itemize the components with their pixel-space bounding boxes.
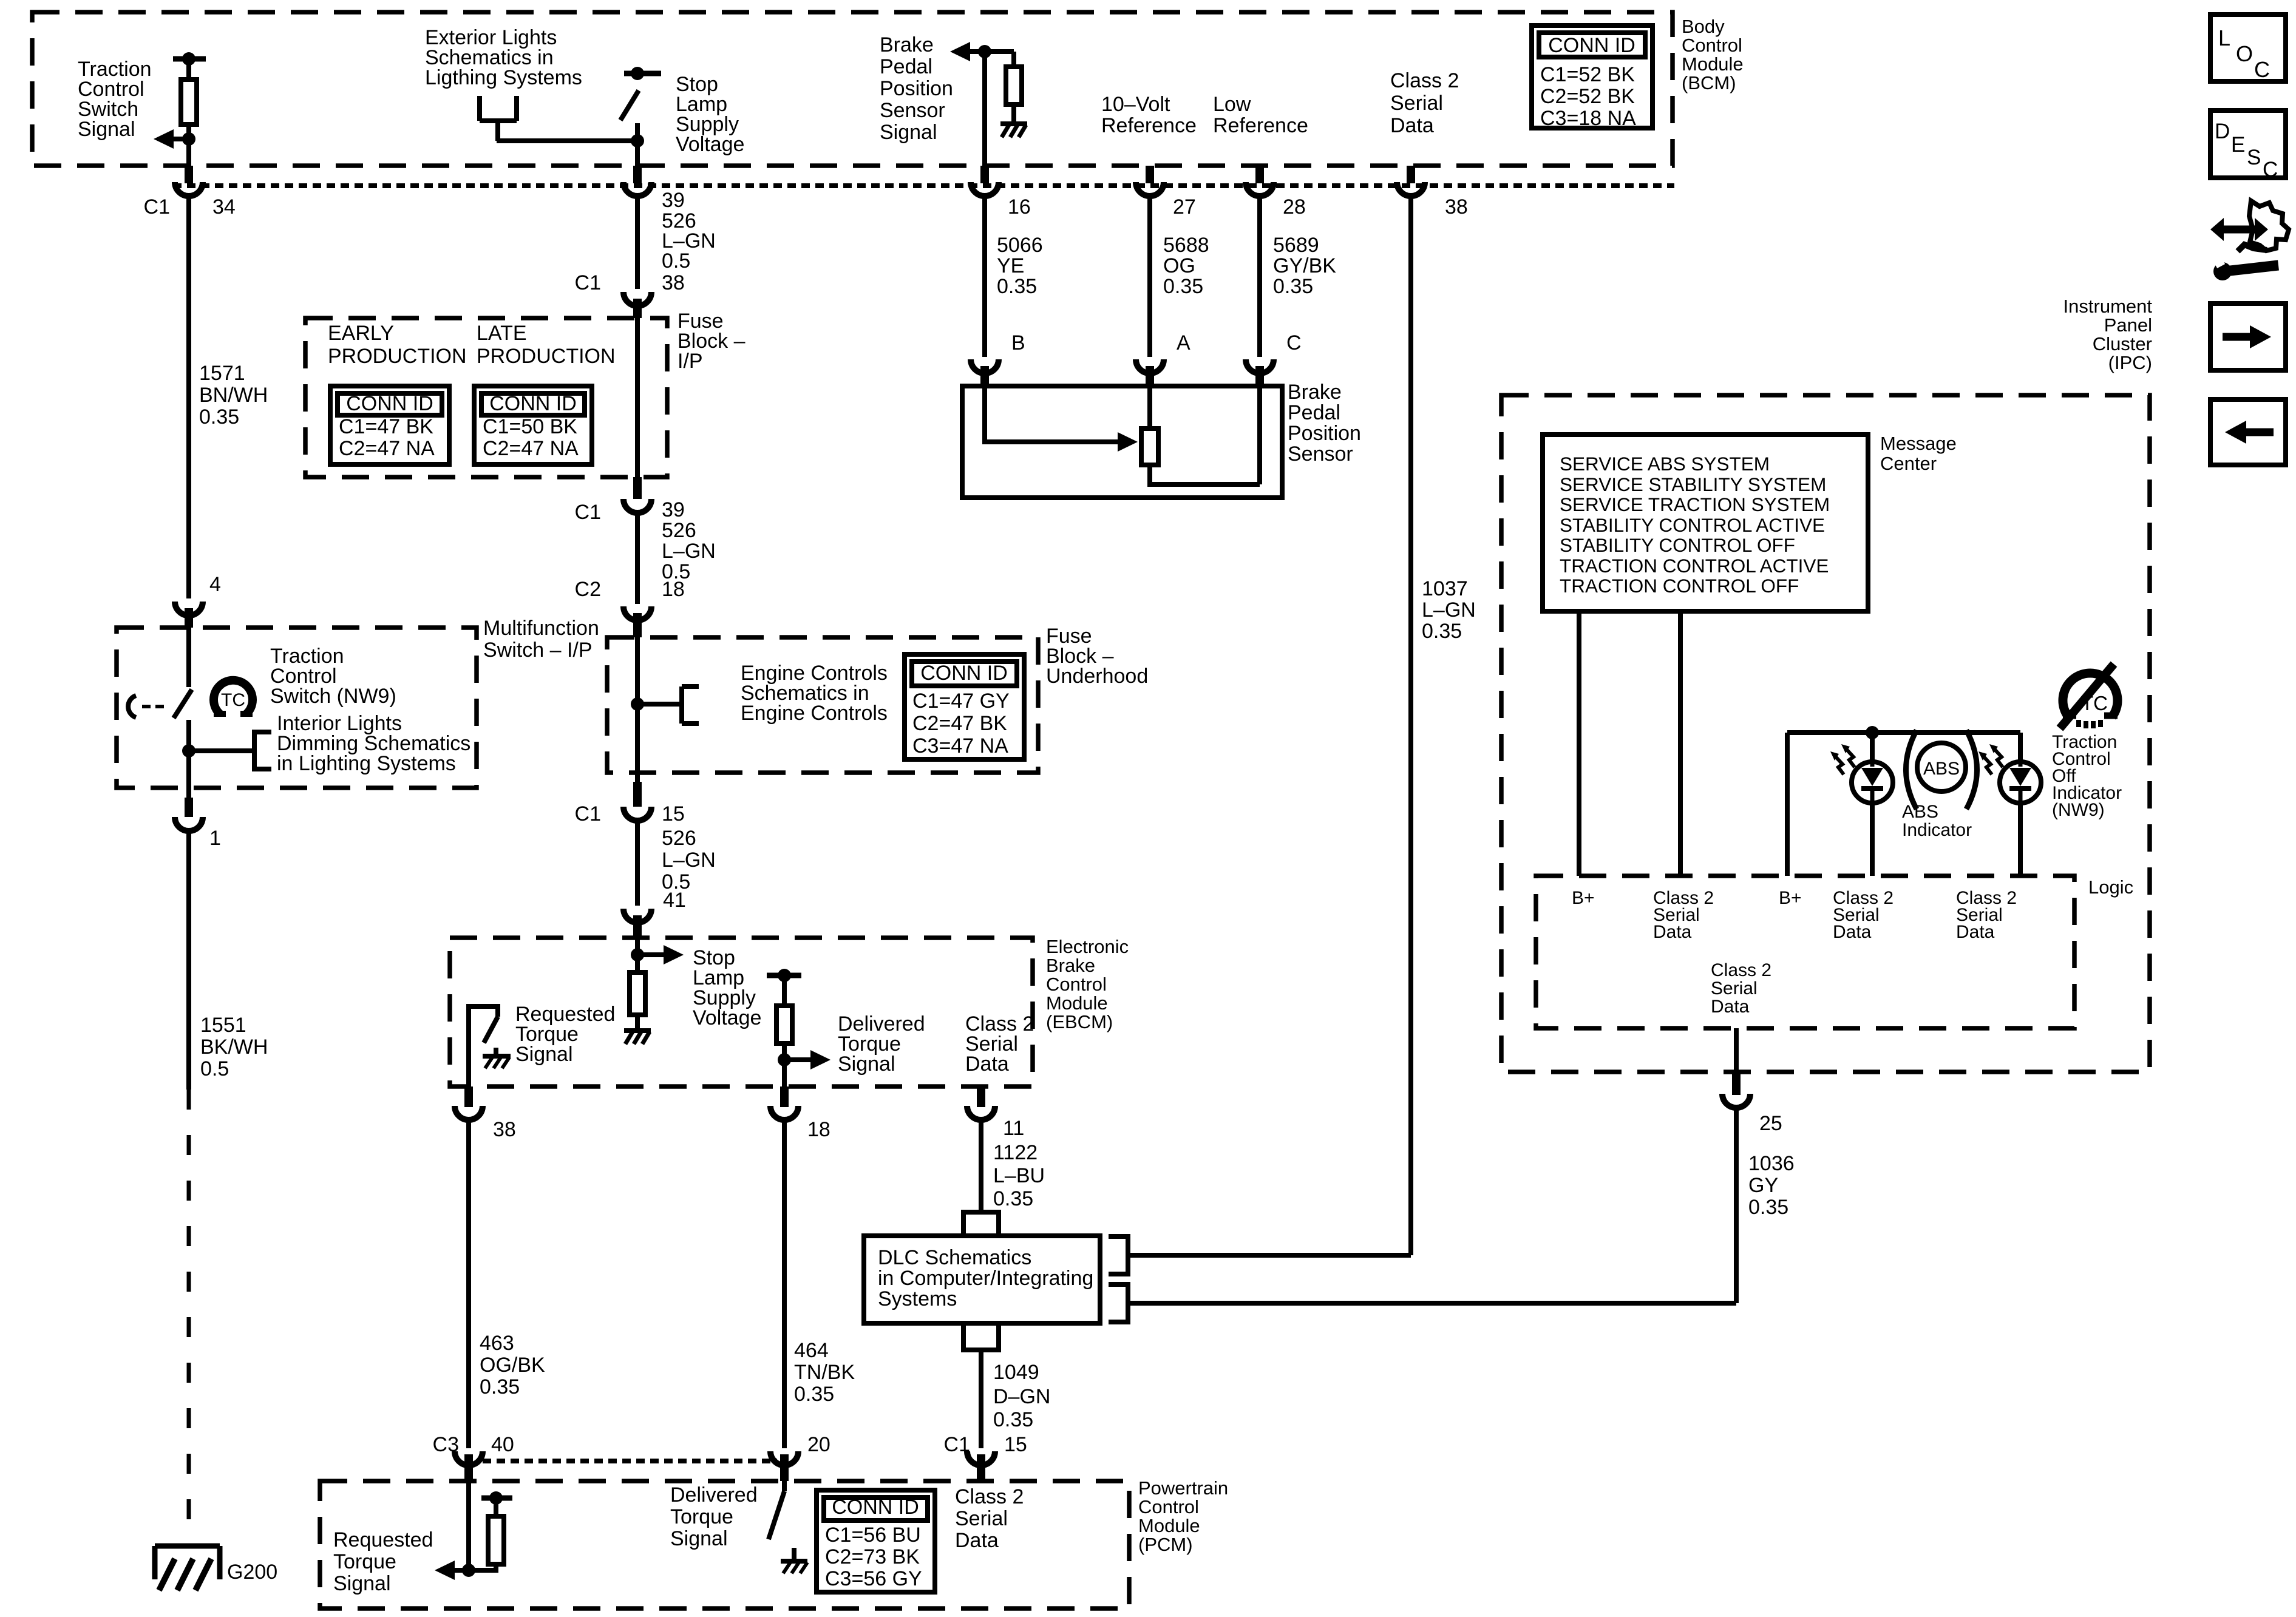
svg-text:Panel: Panel xyxy=(2104,314,2152,336)
svg-text:D–GN: D–GN xyxy=(993,1385,1050,1408)
svg-text:C: C xyxy=(2263,158,2278,181)
svg-text:Underhood: Underhood xyxy=(1046,665,1148,688)
svg-text:Control: Control xyxy=(1682,35,1742,56)
svg-text:TC: TC xyxy=(221,690,245,710)
svg-text:L–BU: L–BU xyxy=(993,1164,1045,1187)
svg-text:0.5: 0.5 xyxy=(200,1057,229,1080)
svg-text:Brake: Brake xyxy=(1046,955,1095,976)
svg-text:5688: 5688 xyxy=(1163,234,1209,257)
svg-text:CONN ID: CONN ID xyxy=(489,392,577,415)
svg-text:A: A xyxy=(1177,331,1190,354)
svg-text:TRACTION CONTROL ACTIVE: TRACTION CONTROL ACTIVE xyxy=(1560,555,1829,577)
svg-text:526: 526 xyxy=(662,519,696,542)
svg-text:0.35: 0.35 xyxy=(480,1375,520,1398)
svg-text:C: C xyxy=(1286,331,1302,354)
svg-text:B: B xyxy=(1011,331,1025,354)
svg-text:Delivered: Delivered xyxy=(670,1483,758,1507)
svg-text:Ligthing Systems: Ligthing Systems xyxy=(425,66,582,89)
svg-text:0.35: 0.35 xyxy=(997,275,1037,298)
svg-text:Requested: Requested xyxy=(333,1528,433,1551)
svg-text:Data: Data xyxy=(1956,922,1995,942)
svg-text:C1: C1 xyxy=(575,501,601,524)
svg-text:Data: Data xyxy=(965,1053,1009,1076)
svg-text:OG: OG xyxy=(1163,254,1195,277)
svg-text:G200: G200 xyxy=(227,1561,277,1584)
svg-text:464: 464 xyxy=(794,1339,829,1362)
svg-text:C1: C1 xyxy=(144,195,170,219)
svg-text:OG/BK: OG/BK xyxy=(480,1354,545,1377)
svg-text:18: 18 xyxy=(807,1118,830,1141)
svg-text:S: S xyxy=(2247,146,2261,169)
svg-text:Electronic: Electronic xyxy=(1046,936,1129,957)
svg-text:Sensor: Sensor xyxy=(880,99,945,122)
svg-text:Switch (NW9): Switch (NW9) xyxy=(270,685,396,708)
svg-text:Low: Low xyxy=(1213,93,1251,116)
svg-text:EARLY: EARLY xyxy=(328,322,394,345)
svg-text:1551: 1551 xyxy=(200,1014,246,1037)
svg-text:38: 38 xyxy=(1445,195,1468,219)
svg-text:Signal: Signal xyxy=(515,1043,573,1066)
svg-text:0.35: 0.35 xyxy=(993,1187,1033,1210)
svg-text:Engine Controls: Engine Controls xyxy=(741,702,888,725)
svg-text:DLC Schematics: DLC Schematics xyxy=(878,1246,1031,1269)
svg-text:Cluster: Cluster xyxy=(2093,333,2152,354)
svg-text:Signal: Signal xyxy=(838,1053,895,1076)
svg-text:Data: Data xyxy=(1653,922,1692,942)
svg-text:Instrument: Instrument xyxy=(2063,296,2153,317)
svg-text:C1=50 BK: C1=50 BK xyxy=(483,415,577,438)
svg-text:CONN ID: CONN ID xyxy=(346,392,433,415)
svg-text:C1=52 BK: C1=52 BK xyxy=(1540,63,1635,86)
svg-text:5689: 5689 xyxy=(1273,234,1319,257)
svg-text:Control: Control xyxy=(1046,974,1107,995)
svg-text:18: 18 xyxy=(662,578,685,601)
svg-text:1: 1 xyxy=(209,827,221,850)
svg-text:TRACTION CONTROL OFF: TRACTION CONTROL OFF xyxy=(1560,575,1799,597)
svg-text:1049: 1049 xyxy=(993,1361,1039,1384)
svg-text:Control: Control xyxy=(1138,1496,1199,1517)
svg-text:C1=47 BK: C1=47 BK xyxy=(339,415,433,438)
svg-text:C2=52 BK: C2=52 BK xyxy=(1540,85,1635,108)
svg-text:LATE: LATE xyxy=(477,322,527,345)
svg-text:C2=73 BK: C2=73 BK xyxy=(825,1545,920,1568)
svg-text:Module: Module xyxy=(1138,1515,1200,1536)
svg-text:Class 2: Class 2 xyxy=(955,1485,1024,1508)
svg-text:Message: Message xyxy=(1880,433,1957,454)
svg-text:Data: Data xyxy=(955,1529,999,1552)
svg-text:STABILITY CONTROL OFF: STABILITY CONTROL OFF xyxy=(1560,534,1795,556)
svg-text:Body: Body xyxy=(1682,16,1725,37)
svg-text:C2=47 NA: C2=47 NA xyxy=(483,437,579,460)
svg-text:38: 38 xyxy=(662,271,685,294)
svg-text:C1: C1 xyxy=(575,802,601,825)
svg-text:1122: 1122 xyxy=(993,1141,1038,1164)
svg-text:C3=47 NA: C3=47 NA xyxy=(912,734,1008,758)
svg-text:Serial: Serial xyxy=(1390,92,1443,115)
svg-text:Reference: Reference xyxy=(1101,114,1197,137)
svg-text:L: L xyxy=(2218,25,2230,50)
svg-text:Torque: Torque xyxy=(333,1550,396,1573)
svg-text:PRODUCTION: PRODUCTION xyxy=(328,345,467,368)
svg-text:Brake: Brake xyxy=(880,33,934,56)
svg-text:BN/WH: BN/WH xyxy=(199,384,268,407)
svg-text:11: 11 xyxy=(1003,1117,1024,1140)
svg-text:(PCM): (PCM) xyxy=(1138,1534,1193,1555)
svg-text:10–Volt: 10–Volt xyxy=(1101,93,1170,116)
svg-text:526: 526 xyxy=(662,827,696,850)
svg-text:L–GN: L–GN xyxy=(662,849,716,872)
svg-text:Pedal: Pedal xyxy=(880,55,932,78)
svg-text:C1: C1 xyxy=(575,271,601,294)
svg-text:C3=56 GY: C3=56 GY xyxy=(825,1567,922,1590)
svg-text:0.5: 0.5 xyxy=(662,249,690,273)
svg-text:Powertrain: Powertrain xyxy=(1138,1477,1228,1499)
svg-text:B+: B+ xyxy=(1572,888,1595,908)
svg-text:Data: Data xyxy=(1833,922,1872,942)
svg-text:41: 41 xyxy=(663,889,686,912)
svg-text:CONN ID: CONN ID xyxy=(920,662,1008,685)
svg-text:Voltage: Voltage xyxy=(693,1006,761,1029)
svg-text:C2=47 NA: C2=47 NA xyxy=(339,437,435,460)
svg-text:GY/BK: GY/BK xyxy=(1273,254,1336,277)
svg-text:Serial: Serial xyxy=(955,1507,1008,1530)
svg-text:PRODUCTION: PRODUCTION xyxy=(477,345,616,368)
svg-text:CONN ID: CONN ID xyxy=(1548,34,1635,57)
svg-text:16: 16 xyxy=(1008,195,1031,219)
svg-text:Class 2: Class 2 xyxy=(1390,69,1459,92)
svg-text:Class 2: Class 2 xyxy=(1711,960,1771,980)
svg-text:39: 39 xyxy=(662,498,685,521)
svg-text:Signal: Signal xyxy=(333,1572,391,1595)
svg-text:0.35: 0.35 xyxy=(1422,620,1462,643)
svg-text:Module: Module xyxy=(1682,53,1744,75)
svg-text:Signal: Signal xyxy=(880,121,937,144)
svg-text:D: D xyxy=(2215,120,2230,143)
svg-text:Data: Data xyxy=(1711,997,1750,1017)
svg-text:15: 15 xyxy=(1004,1433,1027,1456)
svg-text:0.35: 0.35 xyxy=(199,405,239,429)
svg-text:C2=47 BK: C2=47 BK xyxy=(912,712,1007,735)
svg-text:Sensor: Sensor xyxy=(1288,442,1353,466)
svg-text:O: O xyxy=(2236,41,2253,66)
svg-text:0.35: 0.35 xyxy=(794,1383,834,1406)
svg-text:Serial: Serial xyxy=(1711,978,1758,998)
svg-text:SERVICE TRACTION SYSTEM: SERVICE TRACTION SYSTEM xyxy=(1560,493,1830,515)
svg-text:TN/BK: TN/BK xyxy=(794,1361,855,1384)
svg-text:Signal: Signal xyxy=(670,1527,728,1550)
svg-text:1037: 1037 xyxy=(1422,577,1468,600)
svg-text:SERVICE STABILITY SYSTEM: SERVICE STABILITY SYSTEM xyxy=(1560,473,1826,495)
svg-text:20: 20 xyxy=(807,1433,830,1456)
svg-text:Torque: Torque xyxy=(670,1505,733,1528)
svg-text:Position: Position xyxy=(1288,422,1361,445)
svg-text:SERVICE ABS SYSTEM: SERVICE ABS SYSTEM xyxy=(1560,453,1770,475)
svg-text:5066: 5066 xyxy=(997,234,1043,257)
svg-text:ABS: ABS xyxy=(1923,759,1960,779)
svg-text:C3=18 NA: C3=18 NA xyxy=(1540,107,1636,130)
svg-text:463: 463 xyxy=(480,1332,514,1355)
svg-text:39: 39 xyxy=(662,189,685,212)
svg-text:STABILITY CONTROL ACTIVE: STABILITY CONTROL ACTIVE xyxy=(1560,514,1825,536)
svg-text:Switch – I/P: Switch – I/P xyxy=(483,639,593,662)
svg-text:Reference: Reference xyxy=(1213,114,1308,137)
svg-text:Position: Position xyxy=(880,77,953,100)
svg-text:C: C xyxy=(2254,57,2270,82)
svg-text:0.35: 0.35 xyxy=(993,1408,1033,1431)
svg-text:L–GN: L–GN xyxy=(662,540,716,563)
svg-text:Brake: Brake xyxy=(1288,381,1342,404)
svg-text:0.35: 0.35 xyxy=(1748,1196,1788,1219)
svg-text:(IPC): (IPC) xyxy=(2108,352,2152,373)
svg-text:BK/WH: BK/WH xyxy=(200,1036,268,1059)
svg-text:Pedal: Pedal xyxy=(1288,401,1340,424)
svg-text:27: 27 xyxy=(1173,195,1196,219)
svg-text:I/P: I/P xyxy=(678,350,703,373)
svg-text:25: 25 xyxy=(1759,1112,1782,1135)
svg-text:0.35: 0.35 xyxy=(1273,275,1313,298)
svg-text:YE: YE xyxy=(997,254,1024,277)
svg-text:ABS: ABS xyxy=(1902,802,1938,822)
svg-text:38: 38 xyxy=(493,1118,516,1141)
svg-text:B+: B+ xyxy=(1779,888,1802,908)
svg-text:Voltage: Voltage xyxy=(676,133,744,156)
svg-text:C1=56 BU: C1=56 BU xyxy=(825,1524,921,1547)
svg-text:28: 28 xyxy=(1283,195,1306,219)
svg-text:Signal: Signal xyxy=(78,118,135,141)
svg-text:Indicator: Indicator xyxy=(1902,820,1972,840)
svg-text:C2: C2 xyxy=(575,578,601,601)
svg-text:C1=47 GY: C1=47 GY xyxy=(912,690,1010,713)
svg-text:L–GN: L–GN xyxy=(1422,598,1476,622)
svg-text:in Lighting Systems: in Lighting Systems xyxy=(277,752,456,775)
svg-text:1571: 1571 xyxy=(199,362,245,385)
svg-text:Logic: Logic xyxy=(2088,876,2133,898)
svg-text:GY: GY xyxy=(1748,1174,1778,1197)
svg-text:Center: Center xyxy=(1880,453,1937,474)
svg-text:0.35: 0.35 xyxy=(1163,275,1203,298)
svg-text:4: 4 xyxy=(209,573,221,596)
svg-text:34: 34 xyxy=(212,195,236,219)
svg-text:CONN ID: CONN ID xyxy=(832,1496,919,1519)
svg-text:Module: Module xyxy=(1046,992,1108,1014)
svg-text:15: 15 xyxy=(662,802,685,825)
svg-text:(EBCM): (EBCM) xyxy=(1046,1011,1113,1032)
svg-text:in Computer/Integrating: in Computer/Integrating xyxy=(878,1267,1093,1290)
svg-text:E: E xyxy=(2231,133,2245,157)
svg-text:Data: Data xyxy=(1390,114,1434,137)
svg-text:Systems: Systems xyxy=(878,1287,957,1310)
svg-text:Multifunction: Multifunction xyxy=(483,617,599,640)
svg-text:(BCM): (BCM) xyxy=(1682,72,1736,93)
svg-text:1036: 1036 xyxy=(1748,1152,1795,1175)
svg-text:(NW9): (NW9) xyxy=(2052,800,2105,820)
svg-text:40: 40 xyxy=(491,1433,514,1456)
